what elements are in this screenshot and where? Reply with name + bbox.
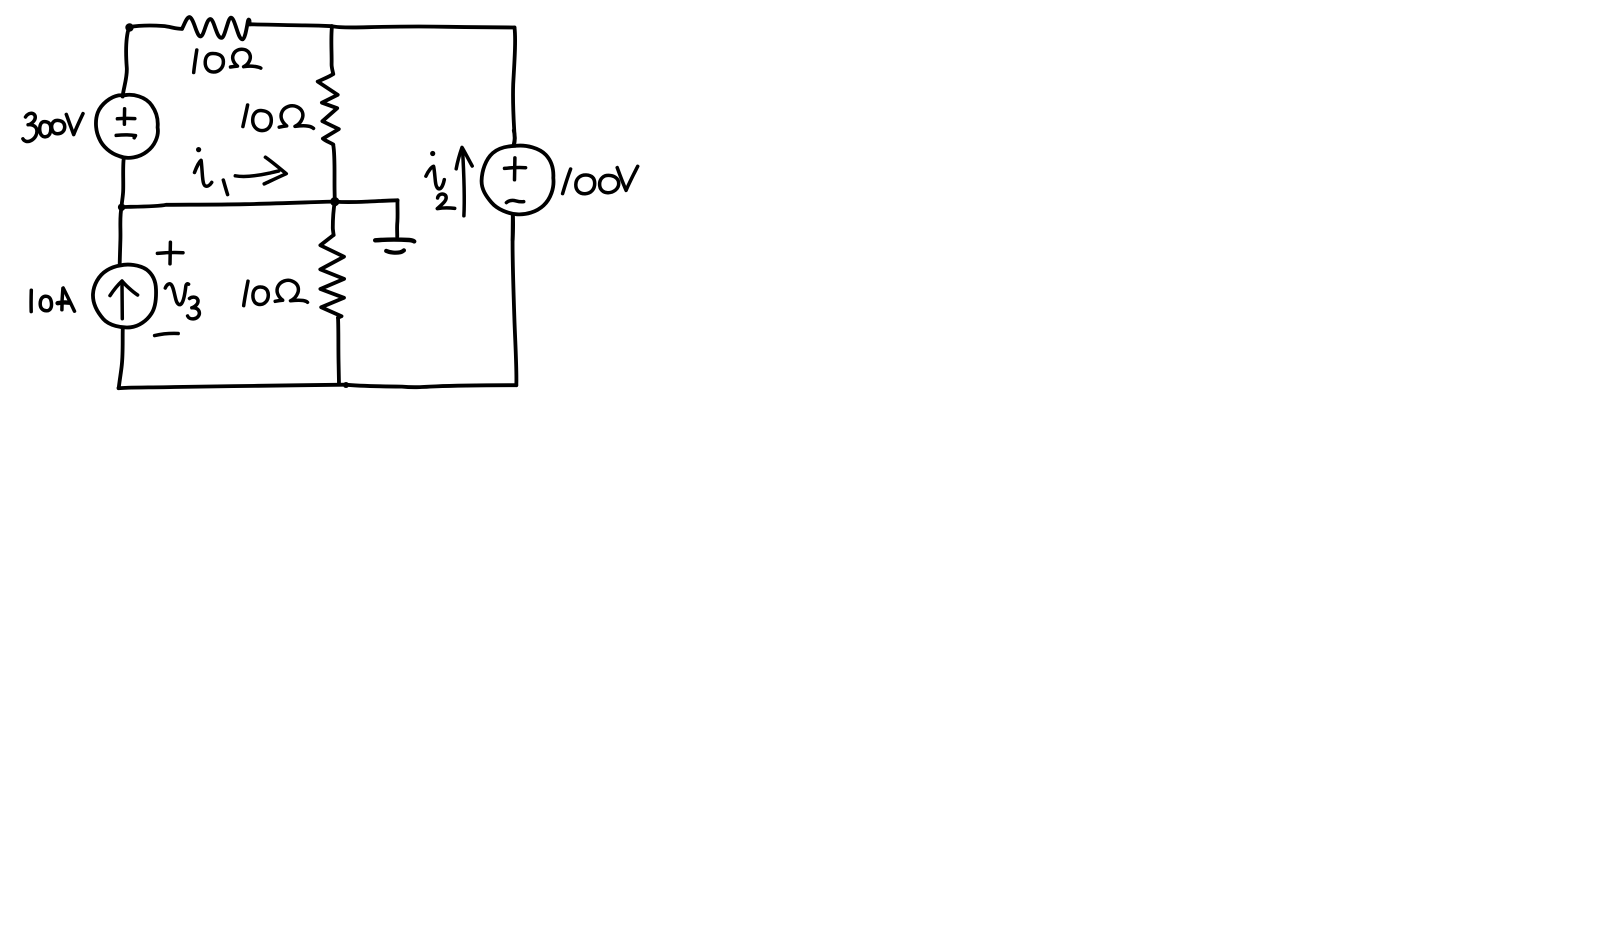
node A (top-left corner junction dot) xyxy=(125,23,133,31)
value label 10A for I1 xyxy=(31,288,74,312)
V1 minus sign xyxy=(116,135,135,138)
resistor R2 (vertical zigzag) xyxy=(318,74,339,145)
wire top-right corner down to V2 xyxy=(513,28,515,146)
minus sign of v3 xyxy=(155,333,179,335)
wire bottom-right corner up to V2 xyxy=(513,215,517,385)
arrow for i2 (pointing up) xyxy=(456,147,472,215)
bottom wire right segment (node D to bottom-right corner) xyxy=(346,385,517,387)
voltage source V1 (300V) circle xyxy=(96,95,158,158)
voltage label v3 xyxy=(165,284,199,319)
wire R2 to node C xyxy=(333,145,335,202)
value label 10Ω for R1 xyxy=(194,49,261,72)
wire node C down to resistor R3 xyxy=(333,202,335,235)
bottom wire left segment (corner to node D) xyxy=(119,385,346,389)
value label 10Ω for R2 xyxy=(243,105,314,131)
value label 300V for V1 xyxy=(23,113,83,141)
wire top-left corner down to V1 xyxy=(123,28,129,97)
wire R1 to middle-column junction xyxy=(250,24,332,26)
V2 minus sign xyxy=(506,200,523,202)
wire node C to ground branch corner xyxy=(337,200,398,202)
resistor R1 (horizontal rounded zigzag) xyxy=(182,17,250,39)
wire ground branch corner down to ground xyxy=(395,200,399,236)
ground symbol xyxy=(375,240,414,253)
resistor R3 (vertical zigzag) xyxy=(320,235,344,318)
value label 10Ω for R3 xyxy=(244,280,308,305)
arrow for i1 (pointing right) xyxy=(235,157,286,184)
wire middle junction to top-right corner xyxy=(332,26,515,27)
wire top-left corner to resistor R1 xyxy=(129,26,182,29)
value label 100V for V2 xyxy=(563,166,638,193)
voltage source V2 (100V) circle xyxy=(482,146,554,215)
wire V1 to node B xyxy=(122,158,124,206)
vertical resistor R2 wire from top junction xyxy=(331,26,333,74)
node D (bottom junction dot) xyxy=(343,382,349,388)
wire V2 top stub xyxy=(512,131,517,146)
V2 plus sign xyxy=(505,158,526,180)
wire node B down to current source I1 xyxy=(120,207,122,264)
wire V2 bottom stub xyxy=(511,215,515,240)
V1 plus sign xyxy=(123,109,127,124)
wire I1 down to bottom-left corner xyxy=(119,328,123,388)
current source I1 (10A) circle xyxy=(93,265,156,328)
current label i2 xyxy=(426,151,455,209)
plus sign of v3 xyxy=(157,242,183,263)
wire R3 to bottom wire xyxy=(338,318,339,385)
node C (junction dot, middle) xyxy=(330,197,339,206)
node B (junction dot, left mid) xyxy=(118,204,125,211)
wire node B to node C (middle horizontal) xyxy=(122,202,335,208)
current label i1 xyxy=(195,147,228,195)
I1 arrow (pointing up inside circle) xyxy=(110,281,138,319)
